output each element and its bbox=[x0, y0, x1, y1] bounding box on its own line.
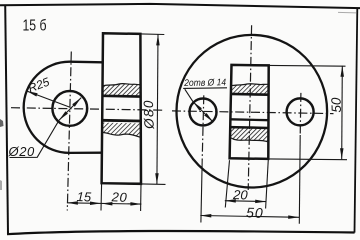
svg-text:50: 50 bbox=[246, 204, 264, 221]
svg-text:50: 50 bbox=[329, 97, 344, 113]
svg-text:20: 20 bbox=[232, 187, 249, 203]
svg-text:Ø80: Ø80 bbox=[141, 99, 157, 130]
svg-text:15 б: 15 б bbox=[23, 17, 47, 34]
svg-text:2отв Ø 14: 2отв Ø 14 bbox=[183, 77, 226, 89]
svg-text:Ø20: Ø20 bbox=[8, 144, 36, 159]
svg-text:15: 15 bbox=[76, 189, 92, 205]
svg-text:20: 20 bbox=[110, 189, 127, 205]
